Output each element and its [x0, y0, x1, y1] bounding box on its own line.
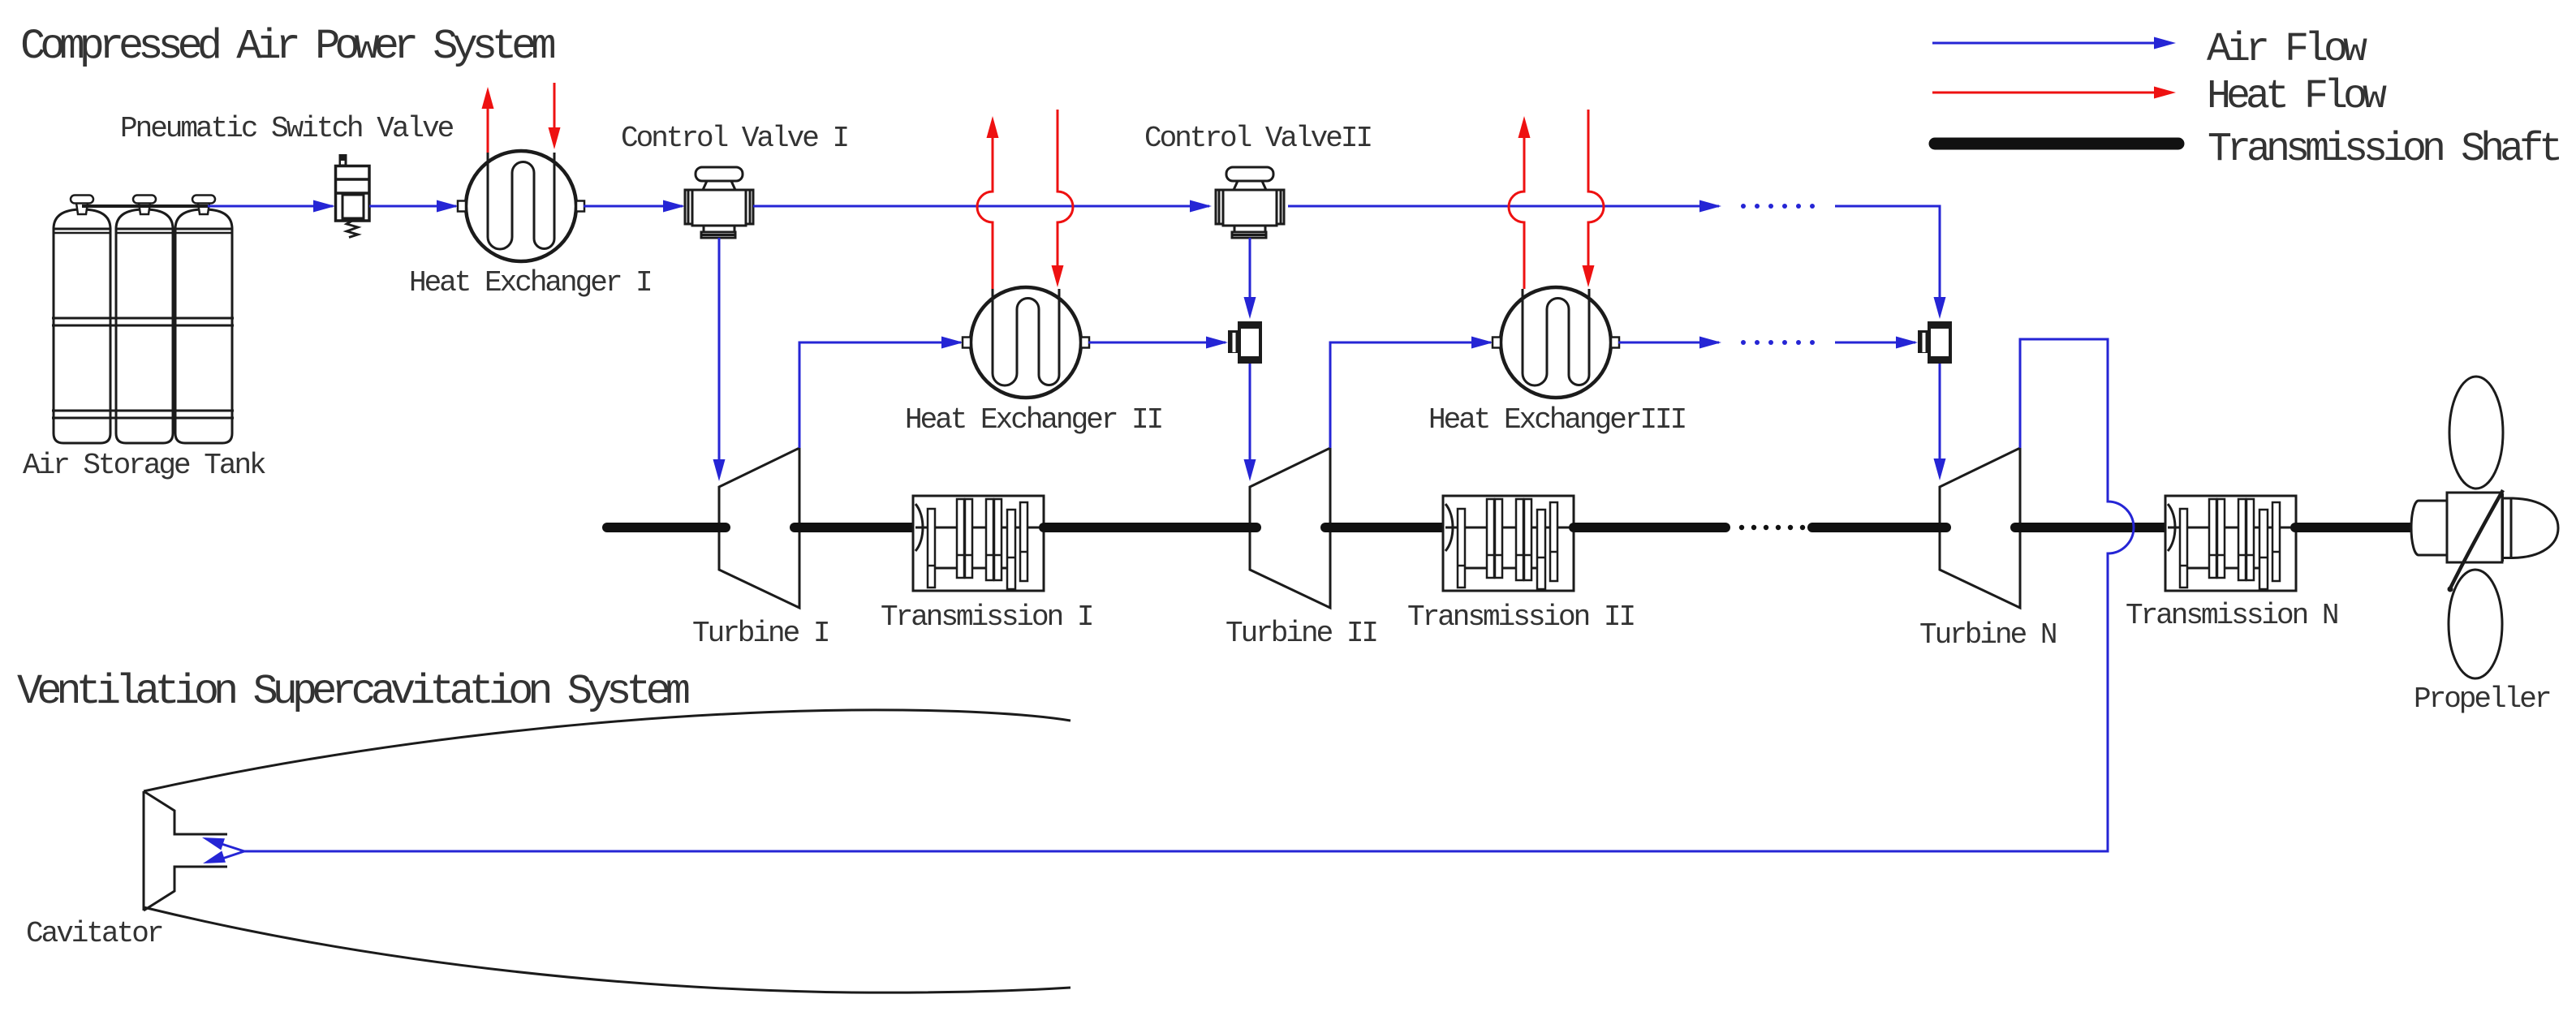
turbine TBN (Turbine N) [1940, 448, 2020, 608]
red heat out line HE III with hop [1509, 116, 1531, 289]
wire: control valve I down line [718, 238, 721, 461]
svg-text:Transmission Shaft: Transmission Shaft [2208, 127, 2559, 173]
transmission gearbox GN (Transmission N) [2165, 496, 2296, 591]
wire: tee2 down to turbine N [1939, 364, 1941, 460]
legend transmission shaft bar [1935, 138, 2178, 150]
wire: turbine II exhaust up to heat exchanger III [1330, 342, 1491, 448]
tank manifold header pipe [82, 204, 208, 208]
wire: turbine I exhaust up to heat exchanger II [799, 342, 961, 448]
control valve V1 (Control Valve I) [685, 167, 753, 238]
dots continuation shaft [1739, 525, 1805, 530]
transmission shaft segment 4 [1325, 523, 1443, 532]
transmission shaft segment 2 [795, 523, 913, 532]
svg-text:Turbine N: Turbine N [1919, 618, 2056, 652]
tee fitting J1 [1228, 321, 1262, 364]
wire: control valve II east to dots [1288, 205, 1719, 208]
turbine TB2 (Turbine II) [1250, 448, 1330, 608]
dots continuation second line [1741, 340, 1815, 345]
air storage tank T1 cylinder 1 [54, 196, 110, 444]
red heat out line HE II with hop [977, 116, 999, 289]
arrow into control valve II [1190, 200, 1212, 213]
propeller sleeve [2411, 501, 2447, 555]
arrow down into tee2 [1934, 297, 1946, 319]
heat exchanger U3 (Heat Exchanger III) [1493, 287, 1619, 398]
cavitator nose plate [144, 791, 227, 911]
propeller cone rings [2503, 493, 2512, 562]
arrow into heat exchanger I [437, 200, 459, 213]
transmission gearbox G2 (Transmission II) [1443, 496, 1574, 591]
heat exchanger U1 (Heat Exchanger I) [458, 151, 584, 261]
svg-text:Control ValveII: Control ValveII [1144, 122, 1371, 155]
arrow into tee1 [1206, 337, 1228, 349]
svg-text:Control Valve I: Control Valve I [621, 122, 847, 155]
turbine TB1 (Turbine I) [719, 448, 799, 608]
red heat in line HE II with hop [1052, 110, 1074, 287]
cavitator body upper curve [144, 710, 1070, 791]
svg-text:Compressed Air Power System: Compressed Air Power System [20, 23, 554, 71]
arrow at end of HE III segment [1699, 337, 1721, 349]
svg-text:Transmission I: Transmission I [881, 601, 1092, 634]
arrow into turbine II [1244, 459, 1256, 481]
svg-text:Ventilation Supercavitation Sy: Ventilation Supercavitation System [17, 668, 689, 716]
pneumatic switch valve body [336, 154, 370, 221]
arrow into turbine I [713, 459, 726, 481]
arrow into heat exchanger III [1471, 337, 1493, 349]
propeller blade top [2449, 377, 2503, 489]
svg-text:Propeller: Propeller [2414, 682, 2550, 716]
control valve V2 (Control Valve II) [1216, 167, 1284, 238]
wire: ventilation line from turbine N up over shaft and down [244, 339, 2134, 851]
cavitator body lower curve [144, 907, 1070, 992]
svg-text:Air Storage Tank: Air Storage Tank [23, 449, 265, 482]
transmission shaft segment 7 [2015, 523, 2165, 532]
wire: main air line tank to pneumatic valve [208, 205, 333, 208]
svg-text:Turbine II: Turbine II [1226, 617, 1376, 650]
arrow at end of CV II segment [1699, 200, 1721, 213]
air storage tank T1 cylinder 3 [175, 196, 232, 444]
legend heat flow arrow [1932, 87, 2176, 99]
svg-text:Heat Exchanger II: Heat Exchanger II [905, 403, 1162, 437]
air storage tank T1 cylinder 2 [116, 196, 173, 444]
wire: heat exchanger II to tee1 [1088, 342, 1226, 344]
svg-text:Heat ExchangerIII: Heat ExchangerIII [1428, 403, 1686, 437]
wire: heat exchanger III east segment [1618, 342, 1719, 344]
svg-text:Cavitator: Cavitator [26, 917, 162, 950]
arrow into pneumatic valve [313, 200, 335, 213]
arrow down into tee1 [1244, 297, 1256, 319]
wire: pneumatic valve to heat exchanger I [369, 205, 456, 208]
wire: heat exchanger I to control valve I [584, 205, 683, 208]
wire: second line resume to tee2 [1835, 342, 1915, 344]
cavitator fork arrow lower [201, 851, 244, 870]
svg-text:Heat Flow: Heat Flow [2207, 74, 2387, 120]
arrow into control valve I [663, 200, 685, 213]
transmission shaft segment 6 [1812, 523, 1946, 532]
air storage tank strap band 1 [52, 318, 234, 325]
cavitator fork arrow upper [200, 832, 244, 851]
tee fitting J2 [1918, 321, 1952, 364]
svg-text:Turbine I: Turbine I [692, 617, 829, 650]
svg-text:Transmission II: Transmission II [1407, 601, 1634, 634]
transmission shaft segment 3 [1044, 523, 1256, 532]
air storage tank strap band 2 [52, 411, 234, 418]
wire: control valve I to control valve II [753, 205, 1209, 208]
red heat out line HE I [482, 87, 494, 153]
red heat in line HE III with hop [1583, 110, 1605, 287]
arrow into heat exchanger II [941, 337, 963, 349]
arrow into turbine N [1934, 458, 1946, 480]
svg-text:Transmission N: Transmission N [2126, 599, 2337, 632]
transmission gearbox G1 (Transmission I) [913, 496, 1044, 591]
transmission shaft segment 8 [2295, 523, 2421, 532]
wire: tee1 down to turbine II [1249, 364, 1251, 461]
propeller nose cone [2502, 498, 2558, 558]
heat exchanger U2 (Heat Exchanger II) [963, 287, 1089, 398]
transmission shaft segment 1 [607, 523, 726, 532]
svg-text:Pneumatic Switch Valve: Pneumatic Switch Valve [120, 112, 454, 145]
pneumatic valve spring [347, 221, 358, 238]
legend air flow arrow [1932, 37, 2176, 50]
wire: top line resume to corner and down to tee2 [1835, 206, 1940, 299]
arrow into tee2 [1896, 337, 1918, 349]
transmission shaft segment 5 [1574, 523, 1725, 532]
red heat in line HE I [549, 83, 561, 149]
wire: control valve II down to tee1 [1249, 238, 1251, 299]
propeller diagonal blade [2449, 490, 2503, 590]
propeller blade bottom [2449, 570, 2502, 678]
svg-text:Air Flow: Air Flow [2207, 27, 2367, 73]
propeller hub block [2447, 493, 2502, 562]
dots continuation top line [1741, 204, 1815, 209]
svg-text:Heat Exchanger I: Heat Exchanger I [409, 266, 651, 299]
